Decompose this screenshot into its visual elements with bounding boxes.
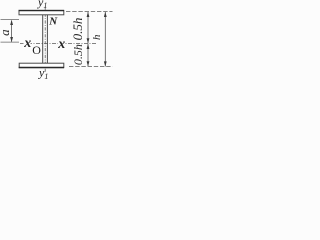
dimension 0.5h (upper): line bbox=[87, 12, 89, 43]
wire: label halo right x bbox=[58, 40, 66, 48]
dimension 0.5h (lower): top arrow bbox=[87, 44, 90, 49]
dimension 0.5h (lower): bottom arrow bbox=[87, 61, 90, 66]
svg-text:0.5h: 0.5h bbox=[70, 18, 85, 41]
svg-text:y1: y1 bbox=[37, 0, 47, 10]
dimension 0.5h (upper): bottom arrow bbox=[87, 38, 90, 43]
dimension 0.5h (upper): top arrow bbox=[87, 12, 90, 17]
svg-text:x: x bbox=[23, 36, 31, 51]
svg-text:O: O bbox=[32, 43, 41, 57]
extension line from point N (left) bbox=[1, 19, 20, 21]
dimension h: top arrow bbox=[104, 12, 107, 17]
dimension a: bottom arrow bbox=[10, 37, 13, 42]
dimension a: line bbox=[11, 21, 13, 42]
bottom flange of I-beam bbox=[19, 63, 64, 67]
wire: label halo left x bbox=[24, 40, 31, 48]
svg-text:N: N bbox=[48, 16, 58, 28]
dimension 0.5h (lower): line bbox=[87, 44, 89, 67]
dimension h: line bbox=[104, 12, 106, 66]
axis y1 (vertical dash-dot centerline) bbox=[44, 7, 46, 72]
top flange of I-beam bbox=[19, 10, 65, 14]
web of I-beam (right edge) bbox=[46, 15, 48, 63]
svg-text:x: x bbox=[57, 37, 65, 52]
extension line at axis level (left, for dimension a) bbox=[1, 41, 20, 43]
extension line top (dashed, to right dimensions) bbox=[66, 10, 113, 12]
extension line bottom (dashed, to right dimensions) bbox=[69, 65, 113, 67]
svg-text:a: a bbox=[0, 29, 12, 36]
web of I-beam (left edge) bbox=[42, 15, 44, 63]
svg-text:h: h bbox=[91, 34, 103, 40]
svg-text:0.5h: 0.5h bbox=[71, 44, 85, 65]
dimension h: bottom arrow bbox=[104, 61, 107, 66]
dimension a: top arrow bbox=[10, 20, 13, 25]
axis x (horizontal dash-dot centerline) bbox=[20, 42, 98, 44]
